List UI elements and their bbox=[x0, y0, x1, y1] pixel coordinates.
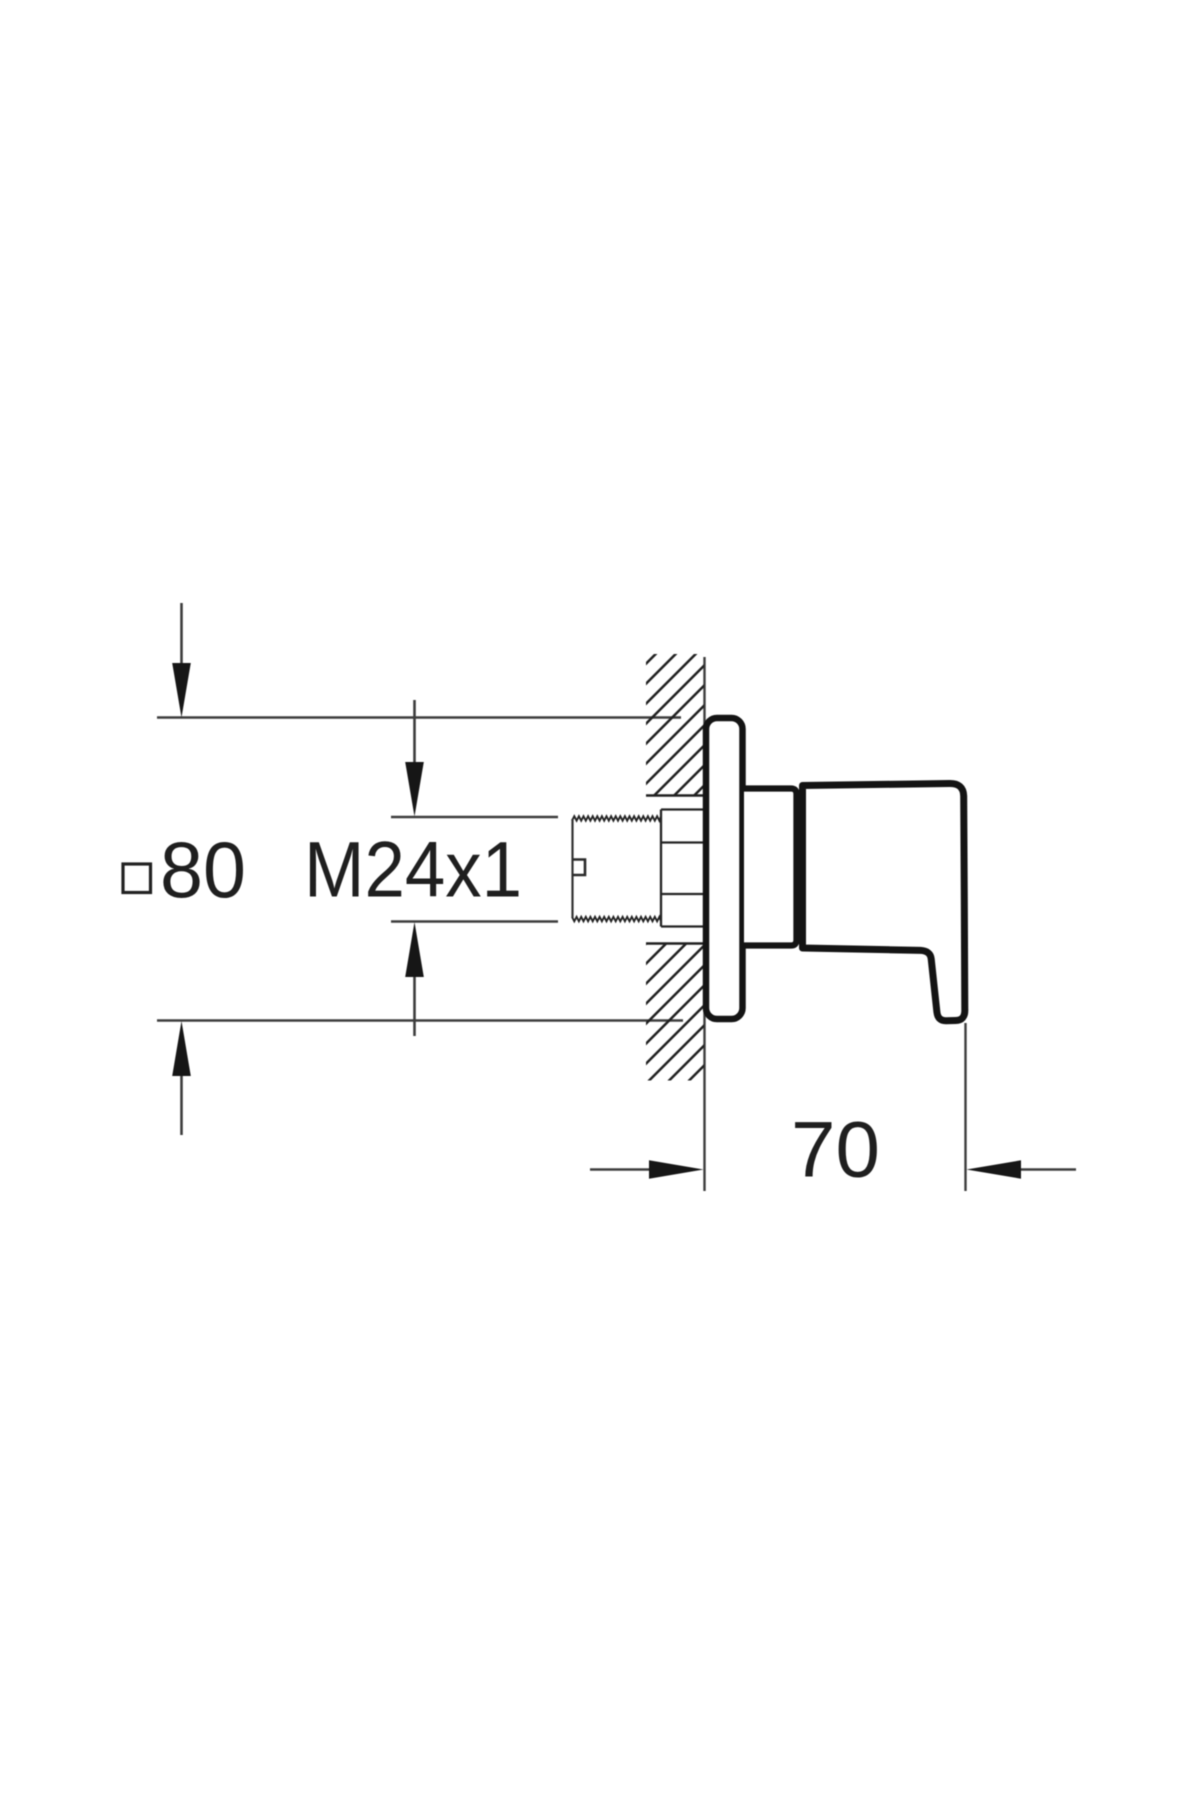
wall face line (also 70-dim left extension) bbox=[703, 657, 705, 1191]
svg-text:70: 70 bbox=[791, 1105, 880, 1194]
lever handle bbox=[803, 783, 965, 1020]
label square-80 symbol bbox=[123, 864, 151, 893]
escutcheon plate (wall flange) bbox=[706, 718, 743, 1019]
wire dim extension line bottom (square-80 bottom) bbox=[157, 1019, 683, 1021]
wire M24 extension line top bbox=[391, 816, 558, 818]
svg-text:80: 80 bbox=[160, 825, 246, 914]
node 70-dim arrow right (pointing left) bbox=[967, 1160, 1077, 1178]
wire dim extension line top (square-80 top) bbox=[157, 716, 681, 718]
threaded spindle (M24x1) bbox=[572, 816, 661, 921]
node M24 arrow bottom (pointing up) bbox=[405, 922, 424, 1036]
wire M24 extension line bottom bbox=[391, 920, 558, 922]
wall hatched section lower bbox=[646, 944, 704, 1081]
node dim arrow top-left (square-80, pointing down) bbox=[172, 603, 191, 718]
svg-text:M24x1: M24x1 bbox=[304, 825, 522, 914]
node 70-dim arrow left (pointing right) bbox=[590, 1160, 704, 1178]
wall hatched section upper bbox=[646, 654, 704, 796]
hex nut on spindle bbox=[661, 810, 704, 927]
node dim arrow bottom-left (square-80, pointing up) bbox=[172, 1021, 191, 1135]
wire 70-dim right extension line bbox=[964, 1023, 966, 1191]
node M24 arrow top (pointing down) bbox=[405, 700, 424, 817]
valve body neck bbox=[744, 789, 797, 946]
